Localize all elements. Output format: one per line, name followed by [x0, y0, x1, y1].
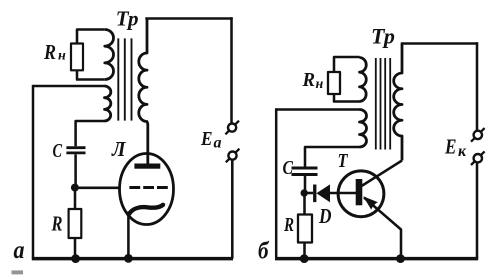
tube U1 envelope (a) — [120, 154, 174, 225]
svg-text:C: C — [53, 140, 63, 162]
wire Rn bottom lead to winding bottom (a) — [77, 70, 105, 79]
wire R bottom to ground rail (a) — [74, 238, 77, 259]
svg-text:б: б — [258, 238, 269, 264]
transformer core (b) — [376, 58, 390, 150]
wire winding bottom to capacitor C (b) — [305, 147, 360, 167]
diode D cathode bar — [313, 185, 316, 203]
transistor T base bar — [356, 179, 363, 205]
wire right rail upper (a) — [230, 17, 233, 123]
svg-text:R: R — [302, 69, 315, 91]
wire junction to diode (b) — [304, 192, 313, 195]
wire grid lead to tube (a) — [75, 187, 121, 190]
wire junction to R top (a) — [74, 188, 77, 210]
svg-text:Тр: Тр — [116, 7, 139, 31]
wire bottom (a) — [32, 257, 233, 261]
capacitor C (b) — [292, 168, 318, 175]
wire R bottom to ground rail (b) — [303, 243, 306, 259]
resistor R (a) — [69, 209, 82, 238]
caption fragment bottom left — [12, 270, 24, 274]
node grid junction (a) — [71, 184, 79, 192]
tube grid dashed line (a) — [129, 186, 167, 189]
transistor T emitter arrow — [363, 196, 378, 209]
node base junction (b) — [301, 189, 308, 196]
svg-text:R: R — [43, 40, 56, 64]
transformer Tp primary upper winding (a) — [105, 30, 114, 80]
svg-text:Л: Л — [111, 137, 126, 161]
svg-text:D: D — [318, 204, 331, 228]
svg-text:E: E — [200, 128, 212, 150]
svg-text:C: C — [283, 157, 294, 179]
wire winding bottom to capacitor C (a) — [76, 121, 105, 146]
wire diode to transistor base (b) — [330, 192, 356, 195]
transistor T emitter line — [364, 198, 401, 259]
wire lower winding top to left rail (b) — [276, 108, 359, 111]
wire right rail lower (b) — [476, 162, 479, 258]
transistor T collector line — [362, 161, 403, 187]
transformer Tp secondary winding (a) — [139, 19, 148, 165]
svg-text:н: н — [316, 77, 324, 92]
transformer core (a) — [118, 38, 131, 120]
wire lower winding top to left rail (a) — [33, 85, 105, 88]
svg-text:R: R — [51, 212, 63, 236]
terminal Ea upper (a) — [225, 121, 239, 135]
wire Rn top lead to winding top (a) — [77, 30, 105, 44]
svg-text:а: а — [214, 135, 222, 152]
diode D triangle — [316, 184, 330, 202]
wire C bottom to junction (a) — [74, 154, 77, 187]
svg-text:E: E — [444, 134, 456, 158]
resistor R (b) — [298, 215, 312, 243]
svg-text:а: а — [14, 237, 25, 264]
terminal Ek lower (b) — [471, 151, 485, 165]
wire bottom (b) — [275, 257, 478, 261]
terminal Ea lower (a) — [226, 149, 240, 163]
terminal Ek upper (b) — [471, 128, 485, 142]
wire C bottom to junction (b) — [304, 176, 307, 193]
wire right rail upper (b) — [476, 42, 479, 130]
wire top (b) — [401, 42, 478, 45]
wire left rail (b) — [275, 108, 278, 258]
wire left rail (a) — [32, 85, 35, 259]
resistor Rn (b) — [328, 72, 340, 94]
node R bottom junction (b) — [300, 254, 309, 263]
svg-text:н: н — [58, 49, 66, 64]
node R bottom junction (a) — [71, 254, 80, 263]
transformer Tp lower winding (b) — [360, 110, 367, 148]
node emitter junction (b) — [396, 254, 405, 263]
wire top (a) — [145, 17, 232, 20]
node cathode junction (a) — [124, 254, 133, 263]
wire Rn top lead to winding top (b) — [334, 57, 360, 72]
wire right rail lower (a) — [231, 160, 234, 259]
transformer Tp upper winding (b) — [360, 58, 367, 102]
wire cathode lead (a) — [127, 212, 130, 259]
wire Rn bottom lead to winding bottom (b) — [334, 94, 360, 102]
resistor Rn (a) — [71, 44, 83, 71]
svg-text:к: к — [458, 143, 467, 160]
wire junction to R top (b) — [303, 196, 306, 215]
tube cathode arc (a) — [129, 205, 163, 215]
transformer Tp collector winding (b) — [394, 44, 402, 161]
svg-text:R: R — [283, 214, 294, 236]
tube anode bar (a) — [134, 164, 160, 169]
transistor T circle — [338, 171, 384, 217]
svg-text:T: T — [338, 150, 349, 172]
svg-text:Тр: Тр — [371, 24, 395, 49]
transformer Tp primary lower winding (a) — [105, 86, 111, 121]
capacitor C (a) — [66, 148, 85, 153]
